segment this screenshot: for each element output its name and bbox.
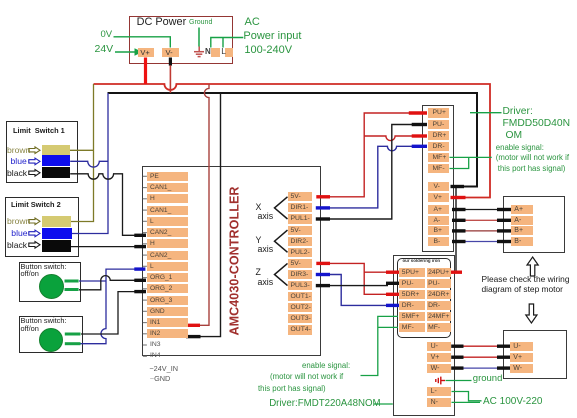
wire PUL1 to PU- of driver U2: [329, 125, 413, 220]
terminal stub DR+ driver U2 (red): [412, 134, 427, 137]
wire V- down to 0V bus (red drawn): [169, 65, 171, 93]
note enable signal (driver U3): [258, 360, 350, 394]
pin driver U3 24MF+: [427, 312, 452, 321]
pin controller DIR1- (right row 2): [288, 203, 312, 212]
wire 5V (Z) to 5DR+ of driver U3: [329, 263, 388, 294]
terminal stub V+ driver U2 (red): [451, 196, 466, 199]
wire green MF+ to enable-signal note: [450, 156, 492, 158]
wire ORG_1 pin to button SW1 lower terminal (hop over navy): [79, 276, 136, 290]
wire B+ driver to motor: [465, 230, 497, 232]
terminal stub B- motor M1: [497, 240, 511, 243]
pin controller ORG_2 (row 11): [147, 284, 188, 293]
label L: [221, 47, 226, 56]
terminal stub 5V X (red): [316, 195, 330, 198]
label N: [205, 48, 211, 56]
terminal stub U- driver U3: [451, 345, 463, 348]
wire navy branch to button SW1 upper terminal: [79, 280, 106, 282]
pin driver U3 MF-: [427, 323, 452, 332]
wire V+ to 24V bus (thick red): [144, 58, 147, 85]
terminal stub DIR3 (blue): [316, 273, 330, 276]
pin driver U3 V+: [427, 353, 452, 362]
label arrow LS2 black: [29, 242, 40, 249]
wire green N- to AC label: [452, 401, 481, 403]
terminal stub button SW2 upper (green): [65, 333, 81, 336]
button switch SW1 box: [19, 262, 81, 302]
pin motor M2 U-: [510, 342, 533, 351]
terminal stub B+ motor M1: [497, 229, 511, 232]
terminal stub V+ motor M2: [497, 356, 510, 359]
terminal stub IN2 (black): [186, 335, 201, 338]
pin controller CAN1_ (row 2): [147, 183, 188, 192]
pin controller IN3 (no wire): [150, 341, 161, 348]
label our soldering iron: [403, 259, 441, 264]
wire DIR1 to DR- of driver U2 (hop over PUL1 wire): [329, 146, 413, 208]
wire navy 0V rail down to limit-switch blues: [72, 93, 108, 234]
label 24V: [95, 44, 114, 55]
label X axis: [256, 203, 274, 222]
label arrow LS2 blue: [29, 230, 40, 237]
pin driver U2 MF-: [428, 164, 450, 173]
bracket Z axis to DIR3/PUL3: [275, 263, 288, 285]
label Y axis: [256, 236, 274, 255]
bracket X axis to DIR1/PUL1: [275, 197, 288, 219]
LS1 black wire bar: [42, 167, 71, 178]
pin controller 5V- (right row 7): [288, 259, 312, 268]
limit switch LS1 box: [6, 121, 78, 183]
label AMC4030-CONTROLLER (rotated): [228, 186, 241, 335]
pin controller H (row 3): [147, 194, 188, 203]
callout line green Driver FMDD50D40NOM label: [470, 112, 502, 114]
LS2 blue wire bar: [42, 228, 72, 240]
callout line green Driver FMDT220A48NOM label: [374, 403, 393, 405]
pin driver U2 DR+: [428, 131, 450, 140]
ground symbol at driver U3 (red, rotated earth): [436, 377, 445, 385]
terminal stub button SW1 upper (green): [65, 280, 79, 283]
pin driver U3 PU-: [399, 279, 425, 288]
pin driver U3 5MF+: [399, 312, 425, 321]
wire DIR3 to DR- of driver U3: [329, 275, 388, 306]
terminal stub 24PU+ driver U3 (red): [451, 271, 463, 274]
driver U3 inner terminal block: [397, 258, 451, 338]
pin driver U2 PU+: [428, 108, 450, 117]
pin controller OUT2- (right row 11): [288, 303, 312, 312]
pin driver U2 A-: [428, 216, 450, 225]
arrow down (points to motor M2): [526, 304, 537, 323]
LS2 black wire bar: [42, 240, 71, 252]
wire green L- to AC label: [452, 392, 482, 401]
pin controller PUL3- (right row 9): [288, 281, 312, 290]
pin controller OUT1- (right row 10): [288, 292, 312, 301]
pin controller 5V- (right row 4): [288, 226, 312, 235]
wire U- driver U3 to motor M2: [462, 345, 497, 347]
terminal N of DC supply: [211, 48, 221, 58]
terminal stub PU- driver U3 (black): [386, 282, 400, 285]
pin controller CAN2_ (row 8): [147, 251, 188, 260]
wire 5V (Z) branch to 5PU+ of driver U3: [364, 271, 388, 273]
button switch SW2 box: [19, 316, 83, 353]
terminal stub DR- driver U3 (blue): [386, 304, 400, 307]
terminal stub U- motor M2: [497, 345, 510, 348]
pin driver U3 5DR+: [399, 290, 425, 299]
LS2 title: [11, 201, 61, 209]
label Ground: [189, 19, 212, 26]
LS1 label brown: [7, 146, 30, 155]
wire black 0V bus (V- rail), turns down at right to driver V-: [108, 93, 478, 187]
wire V- to 24PU+ of driver U3: [455, 188, 457, 272]
arrowhead green 24V into V+: [135, 48, 143, 56]
pin controller IN2 (row 15): [147, 329, 188, 338]
pin controller DIR2- (right row 5): [288, 237, 312, 246]
button SW1 title: [21, 263, 67, 279]
pin controller OUT3- (right row 12): [288, 314, 312, 323]
pin driver U3 PU-: [427, 279, 452, 288]
pin controller IN1 (row 14): [147, 318, 188, 327]
wire green enable note to 5MF+ and MF- of driver U3: [361, 316, 399, 375]
DC power supply box: [129, 16, 234, 63]
terminal stub 5DR+ driver U3 (red): [386, 293, 400, 296]
wire green 24V label to V+ terminal: [115, 51, 135, 53]
wire green 0V label to V- terminal: [114, 37, 171, 48]
terminal stub button SW2 lower (green): [65, 342, 81, 345]
terminal stub PU- driver U2 (black): [412, 123, 427, 126]
button SW2 green button: [39, 328, 63, 352]
terminal stub H (from LS2 black): [134, 245, 146, 248]
wire V+ driver U3 to motor M2: [462, 356, 497, 358]
pin controller H (row 7): [147, 239, 188, 248]
pin driver U3 N-: [427, 398, 452, 407]
terminal stub IN1 (red): [186, 324, 200, 327]
controller U1 box (AMC4030): [142, 166, 321, 356]
terminal stub L (blue common): [134, 267, 145, 270]
pin controller IN4 (no wire): [150, 352, 161, 359]
terminal stub V+ driver U3: [451, 356, 463, 359]
label Z axis: [256, 268, 274, 287]
pin controller DIR3- (right row 8): [288, 270, 312, 279]
step motor M1 box: [503, 196, 565, 253]
terminal stub PUL3 (black): [316, 284, 330, 287]
pin controller CAN2_ (row 6): [147, 228, 188, 237]
pin motor M2 W-: [510, 364, 533, 373]
wire 5V (X) to PU+ of driver U2: [329, 113, 410, 197]
terminal stub W- motor M2: [497, 366, 510, 369]
label arrow LS2 brown: [29, 218, 40, 225]
terminal stub V- driver U2 (black): [451, 185, 465, 188]
wire LS1 blue to navy rail (hop over olive): [70, 161, 108, 167]
terminal stub A- motor M1: [497, 219, 511, 222]
LS2 label black: [7, 241, 27, 250]
label arrow LS1 brown: [29, 147, 40, 154]
wire A+ driver to motor: [465, 209, 497, 211]
wire ORG_2 pin to button SW2 upper terminal: [81, 292, 136, 334]
ground symbol (earth) in DC power box: [194, 47, 204, 57]
LS2 brown wire bar (khaki): [42, 216, 71, 228]
arrow up (points to motor M1): [527, 257, 538, 276]
pin driver U2 DR-: [428, 142, 450, 151]
wire red +24V bus (V+ rail) with hop over V- drop, turns down at right to driver V+: [94, 84, 491, 198]
pin motor M1 B-: [511, 237, 532, 246]
pin motor M1 B+: [511, 226, 532, 235]
label 0V: [101, 30, 113, 40]
terminal stub 5PU+ driver U3 (red): [386, 271, 400, 274]
pin controller OUT4- (right row 13): [288, 325, 312, 334]
label arrow LS1 black: [29, 170, 40, 177]
pin driver U3 DR-: [427, 301, 452, 310]
label AC power input: [245, 17, 260, 29]
terminal stub PU+ driver U2 (red): [409, 111, 427, 114]
stepper driver U2 box (FMDD50D40NOM): [422, 105, 455, 253]
pin driver U3 U-: [427, 342, 452, 351]
pin controller L (row 5): [147, 217, 188, 226]
terminal stub button SW1 lower (green): [65, 288, 79, 291]
pin controller 24V_IN: [149, 365, 178, 373]
wire W- driver U3 to motor M2: [462, 367, 497, 369]
limit switch LS2 box: [5, 197, 80, 257]
pin driver U2 B+: [428, 226, 450, 235]
note enable signal (driver U2): [496, 143, 569, 174]
LS2 label brown: [7, 217, 30, 226]
terminal stub CAN2_ (from LS1 black): [134, 234, 146, 237]
terminal stub ORG_2: [134, 290, 146, 293]
pin driver U2 PU-: [428, 120, 450, 129]
wire IN2 to 0V bus: [199, 93, 221, 337]
LS1 title: [13, 127, 65, 135]
wire green ground symbol to ground label: [446, 380, 472, 382]
pin controller PUL1- (right row 3): [288, 214, 312, 223]
label ground: [473, 374, 503, 384]
step motor M2 box: [503, 330, 567, 379]
terminal stub 5V Z (red): [316, 262, 330, 265]
wire green AC input to N and L terminals: [211, 38, 244, 48]
terminal stub W- driver U3: [451, 366, 463, 369]
LS1 brown wire bar (khaki): [42, 145, 70, 156]
terminal V+ of DC supply: [138, 48, 155, 58]
wire V- stub (thick black): [169, 58, 172, 66]
wire navy common from L pin down to buttons (hop over ORG_2 wire): [79, 269, 136, 344]
pin driver U3 24PU+: [427, 268, 452, 277]
terminal stub A- driver U2: [452, 219, 466, 222]
wire B- driver to motor: [465, 241, 497, 243]
pin driver U3 W-: [427, 364, 452, 373]
pin driver U2 B-: [428, 237, 450, 246]
pin controller ORG_1 (row 10): [147, 273, 188, 282]
wire PUL3 to PU- of driver U3: [329, 285, 388, 287]
wire LS2 black to controller H pin: [71, 246, 137, 248]
bracket Y axis to DIR2/PUL2: [275, 230, 288, 252]
terminal L of DC supply: [225, 48, 234, 58]
terminal stub DIR1 (blue): [316, 206, 330, 209]
pin motor M1 A+: [511, 205, 532, 214]
terminal stub B- driver U2: [452, 240, 466, 243]
pin controller GND (row 13): [147, 307, 188, 316]
pin driver U3 DR-: [399, 301, 425, 310]
label AC 100V-220: [483, 397, 543, 408]
pin motor M1 A-: [511, 216, 532, 225]
pin controller L (row 9): [147, 262, 188, 271]
terminal stub A+ driver U2: [452, 208, 466, 211]
terminal stub B+ driver U2: [452, 229, 466, 232]
pin driver U2 V-: [428, 182, 450, 191]
pin controller 5V- (right row 1): [288, 192, 312, 201]
LS2 label blue: [11, 229, 27, 238]
pin driver U3 24DR+: [427, 290, 452, 299]
pin controller CAN1_ (row 4): [147, 206, 188, 215]
button SW2 title: [21, 317, 67, 333]
pin driver U3 MF-: [399, 323, 425, 332]
label Driver: FMDD50D40NOM: [503, 106, 571, 143]
wire LS1 black to controller CAN2 pin (hops over olive and navy rails): [70, 174, 136, 236]
terminal stub ORG_1: [134, 279, 146, 282]
label DC Power: [137, 17, 187, 29]
note please check wiring: [482, 274, 570, 295]
pin controller GND (bottom): [150, 375, 170, 383]
pin controller PUL2- (right row 6): [288, 248, 312, 257]
terminal V- of DC supply: [162, 48, 179, 58]
pin driver U3 L-: [427, 387, 452, 396]
LS1 label blue: [11, 157, 27, 166]
pin controller ORG_3 (row 12): [147, 296, 188, 305]
wire IN1 to 24V bus (hops sideways over 0V bus): [199, 84, 209, 325]
LS1 label black: [7, 169, 27, 178]
wire 5V branch to DR+ of driver U2 (hop over PUL1 wire): [364, 136, 413, 141]
pin driver U2 V+: [428, 193, 450, 202]
wire green MF- joins MF+ note wire: [450, 157, 469, 168]
wire olive 24V rail down to limit-switch browns: [71, 84, 94, 222]
LS1 blue wire bar: [42, 155, 71, 166]
terminal stub PUL1 (black): [316, 217, 330, 220]
pin driver U2 A+: [428, 205, 450, 214]
terminal stub A+ motor M1: [497, 208, 511, 211]
wire LS1 brown to olive rail: [70, 149, 94, 151]
button SW1 green button: [39, 274, 64, 299]
label Driver:FMDT220A48NOM: [269, 399, 380, 409]
pin driver U2 MF+: [428, 153, 450, 162]
wire green Ground label stem: [198, 28, 200, 47]
pin motor M2 V+: [510, 353, 533, 362]
pin driver U3 5PU+: [399, 268, 425, 277]
stepper driver U3 outer box (FMDT220A48NOM): [393, 255, 456, 416]
wire A- driver to motor: [465, 219, 497, 221]
pin controller PE (row 1): [147, 172, 188, 181]
terminal stub DR- driver U2 (blue): [412, 145, 427, 148]
label arrow LS1 blue: [29, 158, 40, 165]
